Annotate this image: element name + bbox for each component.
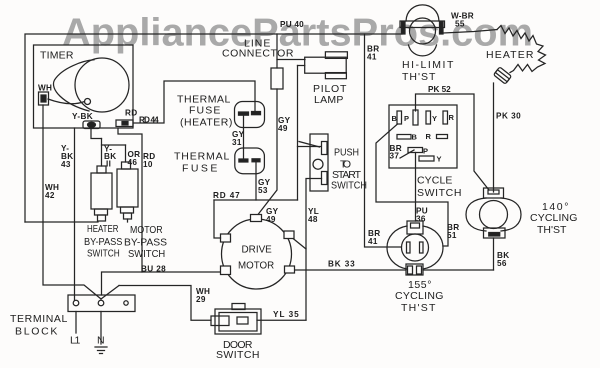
svg-text:CYCLE: CYCLE	[417, 175, 453, 187]
svg-text:TERMINAL: TERMINAL	[10, 313, 68, 325]
svg-text:WH: WH	[38, 84, 52, 93]
svg-text:FUSE: FUSE	[189, 105, 221, 117]
svg-text:R: R	[449, 113, 455, 122]
svg-text:49: 49	[278, 124, 288, 133]
svg-text:CYCLING: CYCLING	[395, 290, 444, 302]
svg-text:MOTOR: MOTOR	[130, 224, 163, 236]
svg-text:RD: RD	[125, 109, 137, 118]
svg-text:B: B	[392, 114, 398, 123]
svg-text:N: N	[97, 335, 105, 347]
svg-text:RD 44: RD 44	[139, 116, 159, 125]
svg-text:L1: L1	[70, 335, 81, 347]
svg-text:BY-PASS: BY-PASS	[84, 237, 123, 249]
svg-text:HEATER: HEATER	[486, 49, 534, 61]
svg-text:36: 36	[416, 215, 426, 224]
svg-text:II: II	[106, 160, 111, 169]
svg-text:51: 51	[447, 231, 457, 240]
svg-text:MOTOR: MOTOR	[238, 260, 274, 271]
svg-text:PUSH: PUSH	[334, 147, 359, 159]
svg-text:10: 10	[143, 160, 153, 169]
svg-text:YL 35: YL 35	[273, 310, 299, 319]
svg-text:56: 56	[497, 259, 507, 268]
svg-text:42: 42	[45, 191, 55, 200]
svg-text:46: 46	[128, 158, 138, 167]
svg-text:PK 30: PK 30	[496, 112, 521, 121]
svg-text:Y-BK: Y-BK	[72, 112, 93, 121]
svg-text:B: B	[412, 133, 418, 142]
svg-text:BLOCK: BLOCK	[15, 326, 58, 338]
svg-text:P: P	[404, 114, 409, 123]
svg-text:FUSE: FUSE	[182, 163, 218, 175]
svg-text:41: 41	[368, 237, 378, 246]
svg-text:49: 49	[266, 215, 276, 224]
svg-text:TH'ST: TH'ST	[401, 302, 436, 314]
svg-text:HEATER: HEATER	[87, 223, 119, 234]
svg-text:SWITCH: SWITCH	[128, 249, 165, 261]
svg-text:(HEATER): (HEATER)	[180, 117, 233, 129]
svg-text:48: 48	[308, 215, 318, 224]
svg-text:SWITCH: SWITCH	[87, 248, 120, 260]
svg-text:31: 31	[232, 138, 242, 147]
svg-text:SWITCH: SWITCH	[331, 180, 367, 192]
svg-text:TH'ST: TH'ST	[402, 71, 436, 83]
svg-text:THERMAL: THERMAL	[174, 151, 230, 163]
svg-text:TH'ST: TH'ST	[537, 224, 567, 236]
svg-text:HI-LIMIT: HI-LIMIT	[402, 59, 454, 71]
svg-text:P: P	[423, 147, 428, 156]
svg-text:R: R	[426, 132, 432, 141]
svg-text:41: 41	[367, 53, 377, 62]
svg-text:LAMP: LAMP	[314, 94, 344, 106]
svg-text:PK 52: PK 52	[428, 85, 451, 94]
svg-text:PU 40: PU 40	[280, 20, 304, 29]
svg-text:SWITCH: SWITCH	[216, 349, 260, 361]
svg-text:29: 29	[196, 295, 206, 304]
svg-text:Y: Y	[432, 114, 437, 123]
svg-text:CONNECTOR: CONNECTOR	[222, 48, 294, 60]
svg-text:37: 37	[390, 152, 400, 161]
svg-text:53: 53	[258, 186, 268, 195]
svg-text:RD 47: RD 47	[213, 191, 240, 200]
svg-text:Y: Y	[437, 155, 442, 164]
svg-text:BY-PASS: BY-PASS	[124, 237, 167, 248]
svg-text:55: 55	[455, 20, 465, 29]
svg-text:TIMER: TIMER	[40, 50, 74, 62]
svg-text:BU 28: BU 28	[141, 265, 166, 274]
svg-text:43: 43	[61, 160, 71, 169]
svg-text:CYCLING: CYCLING	[530, 212, 578, 224]
svg-text:SWITCH: SWITCH	[417, 187, 462, 199]
svg-text:DRIVE: DRIVE	[242, 244, 272, 255]
svg-text:BK 33: BK 33	[328, 260, 355, 269]
